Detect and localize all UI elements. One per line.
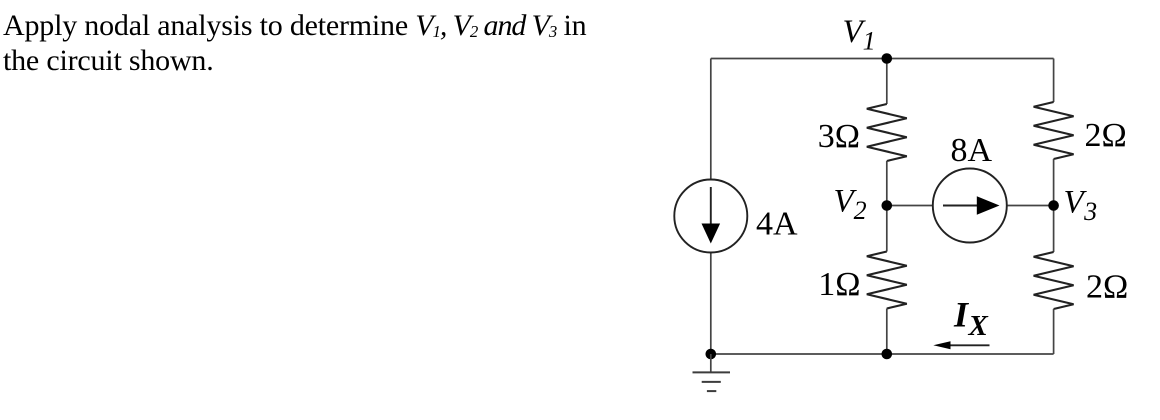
- node ground junction dot: [706, 349, 717, 360]
- svg-text:3Ω: 3Ω: [818, 118, 860, 155]
- resistor R 1ohm: [867, 252, 907, 309]
- wire 3ohm to V2 node: [886, 161, 888, 206]
- node bottom-middle junction dot: [882, 349, 893, 360]
- ground: [693, 354, 731, 391]
- wire left vertical lower: [710, 253, 712, 355]
- svg-text:V3: V3: [1064, 185, 1098, 227]
- wire 2ohm-bottom to bottom rail: [1053, 309, 1055, 354]
- wire V3 node to 2ohm-bottom: [1053, 206, 1055, 253]
- resistor R 2ohm top: [1034, 102, 1074, 159]
- svg-text:2Ω: 2Ω: [1086, 269, 1128, 306]
- wire middle branch V1 to 3ohm: [886, 59, 888, 105]
- svg-text:8A: 8A: [951, 132, 993, 169]
- svg-text:4A: 4A: [756, 206, 798, 243]
- wire right vertical top: [1053, 59, 1055, 103]
- wire V2 node to 8A source: [887, 205, 933, 207]
- wire 1ohm to bottom rail: [886, 309, 888, 355]
- node V1 junction dot: [882, 53, 893, 64]
- Ix arrow: [933, 341, 989, 349]
- resistor R 2ohm bottom: [1034, 252, 1074, 309]
- svg-text:V1: V1: [843, 14, 876, 56]
- svg-text:2Ω: 2Ω: [1085, 117, 1127, 154]
- svg-text:1Ω: 1Ω: [818, 266, 860, 303]
- wire 2ohm-top to V3 node: [1053, 159, 1055, 206]
- svg-text:V2: V2: [834, 184, 867, 226]
- svg-text:IX: IX: [953, 295, 989, 343]
- resistor R 3ohm: [867, 104, 907, 161]
- node V2 junction dot: [882, 200, 893, 211]
- current source I2 8A: [933, 169, 1007, 243]
- question text: [3, 9, 586, 79]
- wire left vertical upper: [710, 59, 712, 180]
- node V3 junction dot: [1048, 200, 1059, 211]
- current source I1 4A: [674, 180, 747, 253]
- wire 8A source to V3 node: [1007, 205, 1054, 207]
- wire top (V1 rail): [711, 58, 1054, 60]
- wire bottom rail: [711, 353, 1054, 355]
- wire V2 node to 1ohm: [886, 206, 888, 252]
